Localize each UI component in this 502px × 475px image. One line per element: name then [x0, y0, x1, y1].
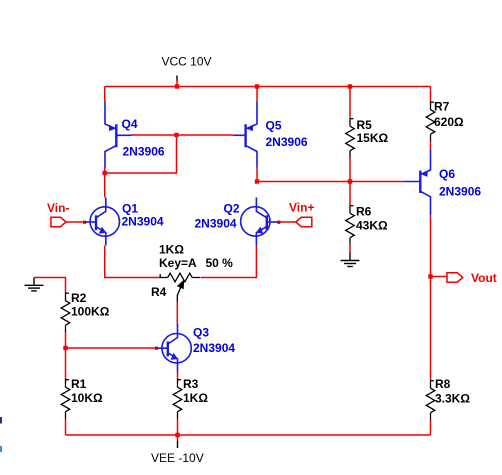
output connector Vout: [447, 273, 463, 283]
pin dot Q1 base: [83, 221, 86, 224]
wire left column top (rail to Q4 emitter): [104, 87, 106, 102]
resistor R3: [173, 379, 182, 419]
transistor Q1 symbol (NPN in circle, base left): [86, 198, 120, 246]
transistor Q5 symbol (PNP, base left): [233, 102, 257, 168]
power pin VCC tick: [176, 76, 178, 82]
node VCC junction dot: [175, 84, 179, 88]
svg-text:1KΩ: 1KΩ: [183, 391, 208, 405]
svg-text:2N3904: 2N3904: [193, 341, 235, 355]
power pin VEE tick: [177, 435, 179, 441]
wire R1 top: [65, 348, 67, 379]
svg-text:620Ω: 620Ω: [434, 115, 464, 129]
svg-text:R3: R3: [183, 377, 199, 391]
wire R4 wiper to Q3 collector: [176, 302, 178, 325]
wire R3 bottom to rail: [177, 419, 179, 436]
wire Vin- to Q1 base: [66, 221, 86, 223]
wire R8 bottom to rail corner: [430, 420, 432, 436]
svg-text:Vin+: Vin+: [289, 201, 314, 215]
wire Q4 diode connection (base to collector): [105, 135, 177, 173]
wire rail right corner to R7: [430, 87, 432, 102]
svg-text:43KΩ: 43KΩ: [356, 219, 388, 233]
left edge text artifact 1: [0, 417, 2, 424]
wire Vin+ to Q2 base: [277, 221, 296, 223]
node Q4 collector junction dot: [103, 171, 107, 175]
wire Q5 emitter to rail: [256, 87, 258, 102]
svg-text:2N3904: 2N3904: [122, 215, 164, 229]
svg-text:Vin-: Vin-: [47, 201, 69, 215]
wire Q1 emitter down and right to R4: [105, 246, 160, 278]
wire R5 top to rail: [349, 87, 351, 119]
potentiometer R4: [160, 273, 201, 301]
resistor R8: [426, 380, 435, 420]
transistor Q3 symbol (NPN in circle, base left): [158, 324, 192, 372]
pin dot Q3 base: [155, 347, 158, 350]
wire R6 bottom stub: [349, 245, 351, 253]
node R5 bottom junction dot: [348, 179, 352, 183]
wire R1 bottom to rail corner: [65, 419, 67, 436]
node R2/R1/Q3 junction dot: [63, 346, 67, 350]
svg-text:2N3904: 2N3904: [195, 217, 237, 231]
svg-text:Q5: Q5: [266, 119, 282, 133]
wire Q4 collector to Q1 collector: [104, 168, 106, 198]
resistor R6: [346, 205, 355, 245]
svg-text:R8: R8: [435, 377, 451, 391]
wire R7 bottom to Q6 emitter: [430, 141, 432, 151]
svg-text:15KΩ: 15KΩ: [357, 131, 389, 145]
node Q5 emitter rail dot: [255, 84, 259, 88]
wire R4 right to Q2 emitter: [201, 246, 256, 278]
node Vout junction dot: [428, 274, 432, 278]
wire bottom rail VEE: [66, 434, 431, 436]
node Q4 base junction dot: [174, 133, 178, 137]
wire R6 top: [349, 182, 351, 206]
ground under R6: [341, 253, 360, 267]
input connector Vin+: [296, 217, 312, 226]
ground left: [25, 278, 44, 291]
svg-text:10KΩ: 10KΩ: [71, 391, 103, 405]
resistor R7: [426, 102, 435, 142]
svg-text:VEE -10V: VEE -10V: [151, 451, 204, 465]
svg-text:3.3KΩ: 3.3KΩ: [435, 392, 470, 406]
wire Q4 base to Q5 base: [131, 134, 233, 136]
input connector Vin-: [51, 217, 66, 226]
transistor Q2 symbol (NPN in circle, base right): [241, 198, 277, 246]
wire Vout tap: [431, 276, 448, 278]
svg-text:R5: R5: [357, 118, 373, 132]
svg-text:Q4: Q4: [122, 117, 138, 131]
svg-text:Q3: Q3: [193, 326, 209, 340]
svg-text:R2: R2: [71, 291, 87, 305]
svg-text:Vout: Vout: [471, 271, 497, 285]
node VEE junction dot: [175, 433, 179, 437]
svg-text:2N3906: 2N3906: [439, 185, 481, 199]
svg-text:Q2: Q2: [224, 201, 240, 215]
svg-text:Key=A: Key=A: [159, 256, 197, 270]
wire Q3 emitter to R3: [177, 371, 179, 379]
resistor R5: [346, 118, 355, 158]
wire R5 bottom to mid wire: [349, 158, 351, 182]
pin dot Q2 base: [277, 221, 280, 224]
wire left ground to R2: [34, 278, 66, 293]
transistor Q6 symbol (PNP, base left): [404, 150, 431, 215]
wire top rail VCC: [105, 86, 431, 88]
svg-text:1KΩ: 1KΩ: [159, 242, 184, 256]
svg-text:2N3906: 2N3906: [266, 135, 308, 149]
node Q5 collector junction dot: [255, 179, 259, 183]
svg-text:R7: R7: [434, 100, 450, 114]
svg-text:Q1: Q1: [122, 201, 138, 215]
wire R2 bottom to node: [65, 332, 67, 348]
svg-text:R6: R6: [356, 205, 372, 219]
resistor R2: [61, 293, 70, 333]
svg-text:R1: R1: [71, 377, 87, 391]
svg-text:2N3906: 2N3906: [123, 145, 165, 159]
wire Q6 collector down through Vout node to R8: [430, 215, 432, 380]
svg-text:50 %: 50 %: [206, 256, 234, 270]
resistor R1: [61, 379, 70, 419]
svg-text:100KΩ: 100KΩ: [71, 305, 110, 319]
svg-text:VCC 10V: VCC 10V: [162, 54, 212, 68]
transistor Q4 symbol (PNP, base right): [105, 102, 132, 168]
left edge text artifact 2: [0, 446, 2, 452]
svg-text:R4: R4: [151, 285, 167, 299]
wire node to Q3 base: [66, 347, 158, 349]
svg-text:Q6: Q6: [439, 167, 455, 181]
node R5 rail dot: [348, 84, 352, 88]
wire Q5 collector down to mid node: [256, 167, 258, 182]
wire mid node to Q6 base: [257, 181, 404, 183]
